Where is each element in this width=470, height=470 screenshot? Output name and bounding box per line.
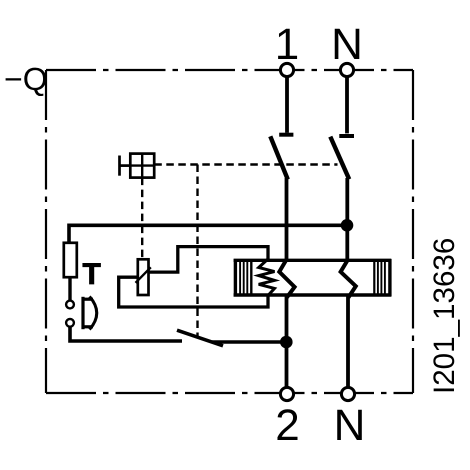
trip relay U (136, 259, 151, 295)
mechanical linkage dashed to relay (141, 178, 143, 259)
auxiliary contact blade (177, 330, 223, 346)
mechanical linkage dashed to test contact (196, 165, 198, 337)
wire test branch top (69, 225, 347, 243)
wire resistor to button (68, 277, 71, 300)
svg-text:N: N (334, 401, 366, 450)
phase conductor kink through CT (279, 260, 294, 298)
svg-text:N: N (331, 20, 363, 69)
svg-text:−Q: −Q (4, 61, 48, 97)
CT core band bottom edge (234, 293, 392, 296)
CT core hatching left (235, 259, 251, 296)
test button contact upper (66, 301, 74, 309)
terminal N top circle (340, 63, 353, 76)
wire relay right to secondary (149, 247, 269, 273)
wire button to bottom (70, 327, 182, 341)
mechanical linkage dashed horizontal (154, 163, 337, 165)
wire N lower (346, 297, 350, 387)
CT core band top edge (234, 259, 392, 262)
test button contact lower (66, 319, 74, 327)
node junction phase (280, 336, 293, 349)
svg-text:I201_13636: I201_13636 (428, 238, 461, 394)
manual actuator crossed square (120, 154, 155, 178)
test button cap arc (90, 297, 97, 330)
wire N middle (345, 178, 349, 261)
wire relay left loop (119, 277, 268, 307)
switch blade pole N (330, 137, 349, 180)
N conductor kink through CT (341, 260, 356, 298)
node junction N (341, 219, 354, 232)
wire aux contact to phase (212, 340, 287, 344)
device boundary dashed frame (46, 70, 413, 393)
CT core hatching right (374, 259, 390, 296)
CT secondary winding zigzag (259, 259, 275, 296)
terminal 1 circle (280, 63, 293, 76)
svg-text:T: T (83, 258, 101, 291)
wire N from terminal N (345, 78, 349, 134)
wire phase middle (285, 178, 289, 261)
svg-text:1: 1 (275, 20, 299, 69)
test button bridge (83, 297, 93, 329)
terminal N bottom circle (341, 387, 354, 400)
contact fixed bar pole 1 (279, 133, 293, 137)
contact fixed bar pole N (339, 134, 354, 138)
wire phase lower (285, 297, 289, 387)
resistor test (64, 243, 77, 277)
wire phase from terminal 1 (285, 78, 289, 133)
terminal 2 circle (280, 387, 293, 400)
switch blade pole 1 (270, 136, 288, 179)
svg-text:2: 2 (275, 401, 299, 450)
